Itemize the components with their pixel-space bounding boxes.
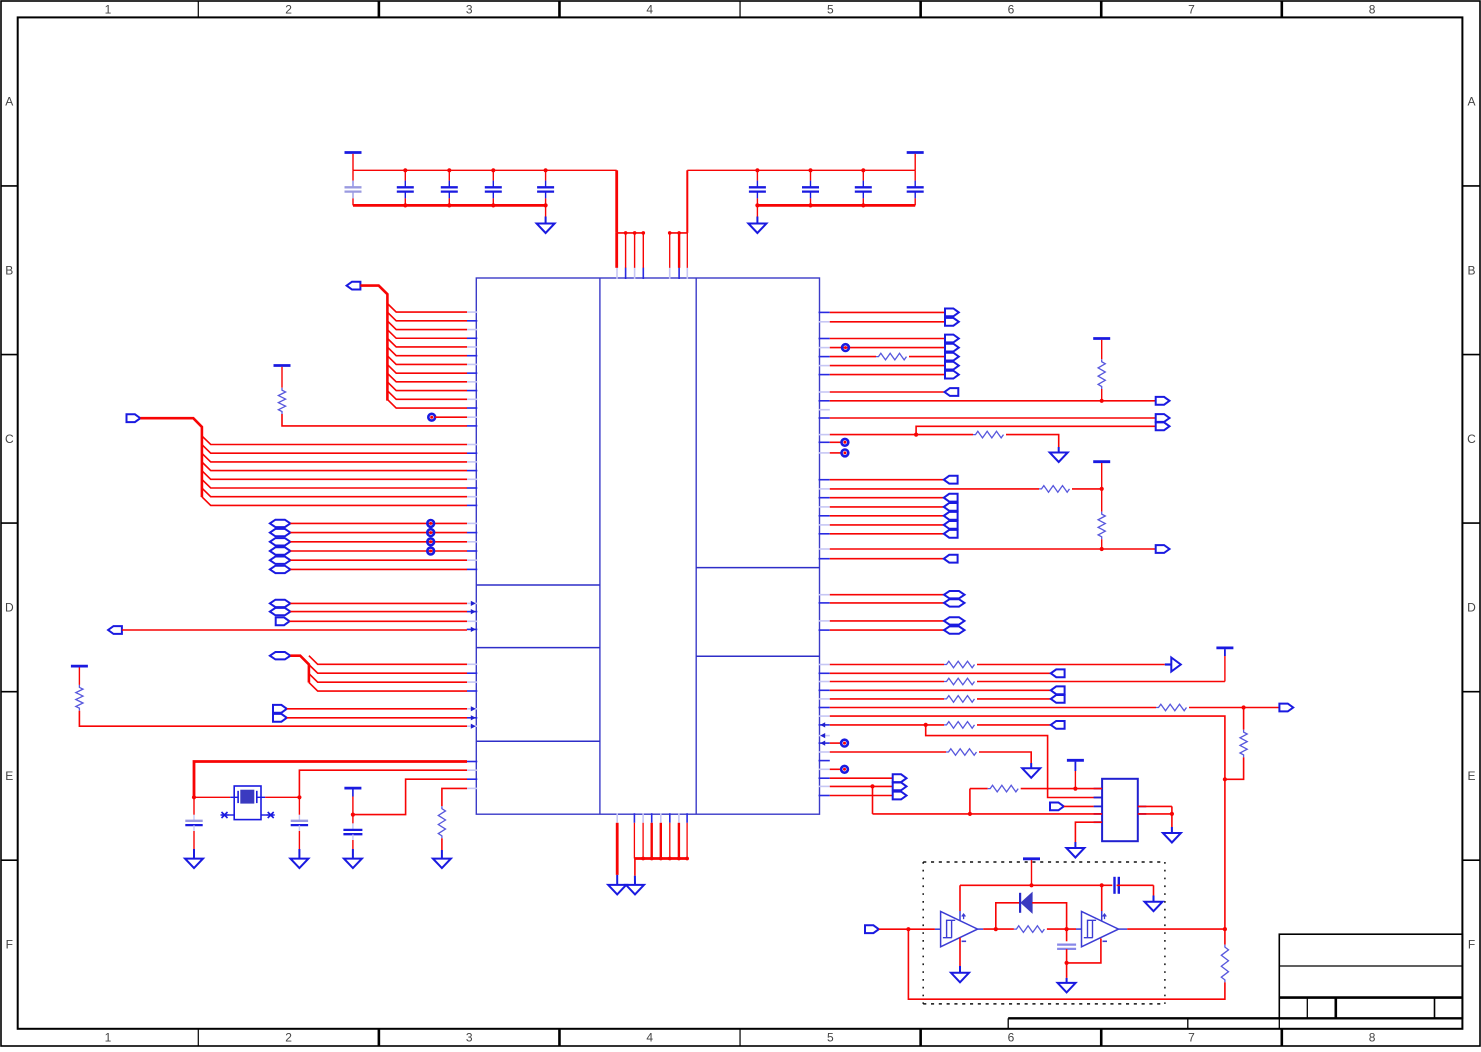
svg-text:B: B [1467,263,1475,277]
svg-text:7: 7 [1188,1031,1195,1045]
svg-text:6: 6 [1008,3,1015,17]
svg-text:2: 2 [285,3,292,17]
svg-text:D: D [5,600,14,614]
svg-text:3: 3 [466,1031,473,1045]
svg-text:4: 4 [646,1031,653,1045]
svg-text:F: F [6,938,13,952]
svg-text:8: 8 [1369,1031,1376,1045]
svg-text:F: F [1468,938,1475,952]
svg-text:A: A [1467,95,1475,109]
svg-text:B: B [5,263,13,277]
svg-text:4: 4 [646,3,653,17]
svg-text:3: 3 [466,3,473,17]
svg-text:E: E [5,769,13,783]
svg-text:1: 1 [105,1031,112,1045]
svg-text:5: 5 [827,1031,834,1045]
svg-text:5: 5 [827,3,834,17]
svg-text:8: 8 [1369,3,1376,17]
svg-text:6: 6 [1008,1031,1015,1045]
svg-text:E: E [1467,769,1475,783]
svg-text:1: 1 [105,3,112,17]
svg-text:C: C [1467,432,1476,446]
svg-text:2: 2 [285,1031,292,1045]
svg-text:D: D [1467,600,1476,614]
svg-text:7: 7 [1188,3,1195,17]
svg-text:C: C [5,432,14,446]
svg-text:A: A [5,95,13,109]
